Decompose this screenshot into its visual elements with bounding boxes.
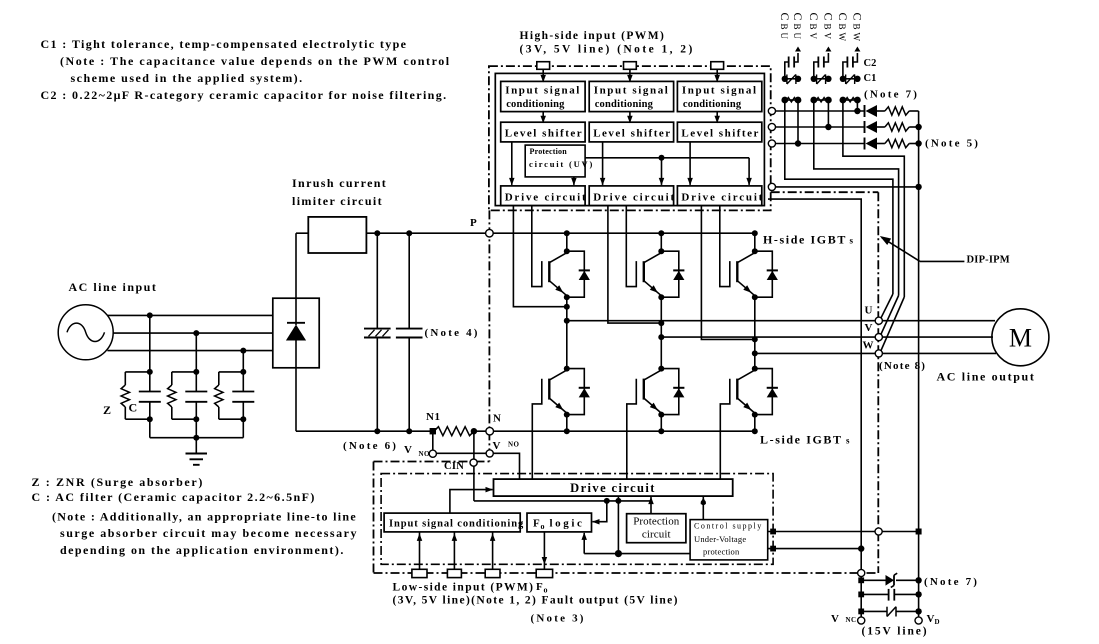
wire ZC2 to bus	[195, 419, 197, 438]
wire ZC3 top bar	[219, 371, 244, 373]
transistor L-side IGBT 2 with freewheel diode	[660, 337, 662, 369]
capacitor C1 pair3	[843, 78, 858, 80]
polarity mark pair1	[795, 47, 801, 52]
node P rail cap2	[406, 230, 412, 236]
node ZC2 top	[193, 369, 199, 375]
wire FS1 slant	[881, 294, 893, 319]
wire CB3 FB column	[856, 100, 858, 111]
wire H1 feedback	[513, 206, 566, 307]
wire low-side input 1	[419, 532, 421, 569]
diode bootstrap D2	[864, 121, 866, 133]
svg-text:C2 : 0.22~2μF R-category ceram: C2 : 0.22~2μF R-category ceramic capacit…	[41, 88, 448, 102]
wire input to level shifter 2	[629, 112, 631, 123]
svg-text:(Note 4): (Note 4)	[425, 327, 480, 339]
wire VNC rail top	[768, 199, 861, 620]
svg-text:depending on the application e: depending on the application environment…	[60, 543, 345, 557]
package outline right	[877, 192, 879, 573]
wire N rail left	[296, 430, 433, 432]
low-side inner box	[381, 474, 773, 565]
node AC line2 tap	[193, 330, 199, 336]
svg-text:V: V	[831, 613, 839, 625]
wire CIN line	[474, 500, 651, 502]
wire CIN sense	[473, 431, 475, 501]
svg-text:CBV: CBV	[821, 13, 835, 43]
wire terminal 2 to input box	[629, 69, 631, 81]
wire drop 2	[195, 333, 197, 372]
wire ground bus	[150, 437, 244, 439]
svg-text:Input signal: Input signal	[505, 85, 581, 97]
node ZC1 top	[147, 369, 153, 375]
wire H3 feedback	[701, 206, 754, 340]
svg-text:CBV: CBV	[807, 13, 821, 43]
svg-text:(Note : The capacitance value: (Note : The capacitance value depends on…	[60, 54, 451, 68]
node N1 right	[471, 428, 477, 434]
wire ZC1 top bar	[125, 371, 150, 373]
wire H3 emitter to phase	[754, 297, 756, 353]
svg-text:Level shifter: Level shifter	[593, 128, 671, 140]
svg-text:protection: protection	[703, 547, 740, 557]
box Level shifter 2	[589, 122, 673, 142]
box Protection circuit (UV)	[525, 145, 585, 177]
svg-text:AC line output: AC line output	[937, 370, 1036, 384]
resistor N1	[434, 427, 474, 436]
capacitor C2 pair1	[785, 62, 789, 79]
package outline low-side left	[373, 462, 375, 574]
svg-text:Input signal conditioning: Input signal conditioning	[389, 519, 524, 530]
node phase W	[752, 350, 758, 356]
svg-text:C: C	[129, 401, 138, 415]
wire protection UV output	[585, 157, 749, 159]
capacitor C2 pair2	[814, 62, 819, 79]
terminal VD high-side	[768, 183, 775, 190]
capacitor C1 (AC filter)	[149, 372, 151, 392]
svg-text:Level shifter: Level shifter	[681, 128, 759, 140]
wire pair2 lower junction	[814, 99, 829, 101]
wire FS3 slant	[881, 297, 905, 351]
node N rail cap2	[406, 428, 412, 434]
bridge rectifier box	[273, 298, 319, 368]
box Drive circuit H2	[589, 186, 673, 206]
svg-text:(Note : Additionally, an appro: (Note : Additionally, an appropriate lin…	[52, 510, 357, 524]
svg-text:C1 : Tight tolerance, temp-com: C1 : Tight tolerance, temp-compensated e…	[41, 37, 408, 51]
node row B left	[858, 592, 864, 598]
wire FS2 slant	[881, 296, 899, 336]
svg-text:M: M	[1009, 324, 1032, 353]
wire CB2 FB column	[827, 100, 829, 127]
node row B right	[915, 591, 921, 597]
svg-text:Inrush current: Inrush current	[292, 176, 387, 190]
wire ZC3 bottom bar	[219, 418, 244, 420]
wire H2 emitter to phase	[660, 297, 662, 337]
svg-text:scheme used in the applied sys: scheme used in the applied system).	[71, 71, 304, 85]
wire ZC1 bottom bar	[125, 418, 150, 420]
svg-text:AC line input: AC line input	[69, 280, 158, 294]
node AC line1 tap	[147, 312, 153, 318]
node P rail col1	[564, 230, 570, 236]
wire drive to fault net	[617, 496, 619, 553]
terminal VD bottom	[915, 617, 922, 624]
svg-text:Input signal: Input signal	[682, 85, 758, 97]
wire control supply VD line	[768, 531, 919, 533]
svg-text:V: V	[493, 440, 501, 452]
zener symbol row C	[886, 607, 888, 617]
wire drop 1	[149, 315, 151, 372]
transistor H-side IGBT 3 with freewheel diode	[754, 233, 756, 251]
svg-text:DIP-IPM: DIP-IPM	[967, 255, 1010, 266]
node phase V	[658, 334, 664, 340]
capacitor C1 pair2	[814, 78, 829, 80]
node AC line3 tap	[240, 348, 246, 354]
box Control supply UV protection	[690, 520, 768, 560]
terminal low-side 4	[536, 569, 552, 577]
wire VNO link	[436, 453, 519, 479]
box Protection circuit low	[627, 514, 686, 543]
wire L2 emitter to N rail	[660, 415, 662, 432]
svg-text:(3V, 5V line) (Note 1, 2): (3V, 5V line) (Note 1, 2)	[520, 44, 695, 56]
wire bootstrap row 2	[776, 126, 865, 128]
wire L3 emitter to N rail	[754, 415, 756, 432]
high-side inner box	[495, 73, 764, 205]
wire input to level shifter 3	[716, 112, 718, 123]
terminal VVFB	[768, 123, 775, 130]
wire UV to drive3	[748, 158, 750, 185]
terminal VNO right	[486, 450, 493, 457]
terminal phase U	[875, 317, 882, 324]
resistor bootstrap R1	[885, 107, 909, 115]
node ZC1 bottom	[147, 416, 153, 422]
node VD line to rail	[915, 184, 921, 190]
node CIN x drive-fault	[615, 498, 621, 504]
wire CB2 FS route	[814, 100, 899, 296]
terminal P	[486, 229, 494, 237]
svg-text:V: V	[927, 613, 935, 625]
svg-text:(Note 3): (Note 3)	[531, 613, 586, 625]
node row C right	[915, 608, 921, 614]
node FB1 row join	[795, 140, 801, 146]
node FB2 row join	[825, 124, 831, 130]
terminal VD package pin	[875, 528, 882, 535]
svg-text:Drive circuit: Drive circuit	[570, 481, 656, 495]
terminal phase V	[875, 334, 882, 341]
svg-text:Z: Z	[103, 403, 111, 417]
node row A right	[915, 577, 921, 583]
wire UV to drive2	[661, 158, 663, 185]
node N rail col3	[752, 428, 758, 434]
box Drive circuit H3	[677, 186, 761, 206]
box Drive circuit low	[494, 479, 733, 496]
wire level shifter1 to drive1	[511, 142, 513, 185]
zener diode DZ	[886, 575, 895, 586]
wire terminal 3 to input box	[716, 69, 718, 81]
transistor L-side IGBT 3 with freewheel diode	[754, 353, 756, 368]
terminal on border bottom	[858, 569, 865, 576]
wire CIN to drive/protection	[650, 497, 652, 514]
svg-text:(15V line): (15V line)	[862, 626, 929, 638]
node protection line col2	[659, 155, 665, 161]
wire low-side input 3	[492, 532, 494, 569]
node P rail col2	[658, 230, 664, 236]
node N rail col1	[564, 428, 570, 434]
capacitor C2 (AC filter)	[195, 372, 197, 392]
varistor Z3	[218, 372, 220, 385]
node fault join	[615, 550, 622, 557]
package outline top-right link	[771, 191, 879, 193]
terminal low-side 3	[485, 569, 500, 577]
svg-text:N1: N1	[426, 411, 440, 423]
node N rail col2	[658, 428, 664, 434]
svg-text:(Note 5): (Note 5)	[925, 138, 980, 150]
svg-text:o: o	[541, 522, 545, 531]
svg-text:CBW: CBW	[836, 13, 850, 45]
node N1 left	[430, 428, 436, 434]
wire level shifter3 to drive3	[689, 142, 691, 185]
wire protection to drive1	[573, 177, 575, 185]
node row2 to VD rail	[915, 124, 921, 130]
svg-text:limiter circuit: limiter circuit	[292, 194, 383, 208]
node ZC3 bottom	[240, 416, 246, 422]
motor M circle	[992, 309, 1049, 366]
svg-text:(3V, 5V line)(Note 1, 2) Fault: (3V, 5V line)(Note 1, 2) Fault output (5…	[393, 595, 679, 607]
wire to Fo logic right	[593, 501, 607, 522]
terminal high-side input 3	[711, 62, 724, 70]
svg-text:U: U	[865, 305, 873, 317]
svg-text:F: F	[533, 518, 540, 530]
svg-text:V: V	[404, 444, 412, 456]
polarity mark pair2	[825, 47, 831, 52]
svg-text:Protection: Protection	[633, 516, 680, 528]
wire fault line	[584, 553, 690, 555]
svg-text:W: W	[863, 340, 874, 352]
svg-text:Level shifter: Level shifter	[505, 128, 583, 140]
terminal VNC	[858, 617, 865, 624]
wire pair1 lower junction	[785, 99, 798, 101]
terminal low-side 1	[412, 569, 427, 577]
node row A left	[858, 577, 864, 583]
node N rail cap1	[374, 428, 380, 434]
wire 15V row A	[861, 579, 885, 581]
varistor Z2	[171, 372, 173, 385]
wire ZC2 bottom bar	[172, 418, 197, 420]
svg-text:C : AC filter (Ceramic capacit: C : AC filter (Ceramic capacitor 2.2~6.5…	[32, 490, 316, 504]
svg-text:NC: NC	[846, 616, 857, 624]
capacitor C3 (AC filter)	[242, 372, 244, 392]
capacitor 15V filter	[861, 593, 888, 595]
wire rectifier to N rail	[295, 368, 297, 431]
wire H2 feedback	[608, 206, 661, 324]
wire H1 emitter to phase	[566, 297, 568, 321]
node FB3 row join	[854, 108, 860, 114]
svg-text:(Note 7): (Note 7)	[924, 576, 979, 588]
svg-text:P: P	[470, 217, 477, 229]
wire P rail	[296, 232, 756, 234]
node H1 feedback join	[564, 304, 570, 310]
node row C left	[858, 609, 864, 615]
svg-text:Input signal: Input signal	[594, 85, 670, 97]
node H2 feedback join	[658, 320, 664, 326]
node ZC3 top	[240, 369, 246, 375]
box Level shifter 3	[677, 122, 761, 142]
wire AC line 1	[107, 314, 272, 316]
svg-text:Under-Voltage: Under-Voltage	[694, 534, 746, 544]
wire terminal 1 to input box	[542, 69, 544, 81]
wire CB1 FB column	[797, 100, 799, 144]
resistor bootstrap R2	[885, 123, 909, 131]
wire L1 emitter to N rail	[566, 415, 568, 432]
node CIN branch	[604, 498, 610, 504]
wire N rail right	[475, 430, 757, 432]
wire fault to Fo logic	[583, 533, 585, 554]
svg-text:CBU: CBU	[778, 13, 792, 43]
wire VD rail	[918, 111, 920, 621]
rectifier diode	[295, 298, 297, 325]
svg-text:Protection: Protection	[530, 147, 568, 156]
wire CB1 FS route	[785, 100, 893, 294]
wire Fo output	[543, 532, 545, 569]
wire ZC1 to bus	[149, 419, 151, 438]
wire input to level shifter 1	[542, 112, 544, 123]
wire ZC2 top bar	[172, 371, 197, 373]
node phase U	[564, 318, 570, 324]
node row3 to VD rail	[915, 140, 921, 146]
polarity mark pair3	[854, 47, 860, 52]
svg-text:High-side input (PWM): High-side input (PWM)	[520, 30, 666, 42]
svg-text:Control supply: Control supply	[694, 522, 763, 531]
node ZC2 bottom	[193, 416, 199, 422]
svg-text:Drive circuit: Drive circuit	[681, 191, 764, 203]
node P rail cap1	[374, 230, 380, 236]
wire level shifter2 to drive2	[602, 142, 604, 185]
wire input-cond to drive	[450, 490, 493, 513]
svg-text:(Note 7): (Note 7)	[864, 89, 919, 101]
svg-text:CIN: CIN	[444, 461, 464, 472]
terminal high-side input 1	[537, 62, 550, 70]
wire AC line 2	[113, 332, 273, 334]
svg-text:Drive circuit: Drive circuit	[593, 191, 676, 203]
box Drive circuit H1	[501, 186, 585, 206]
wire ZC3 to bus	[242, 419, 244, 438]
svg-text:Z : ZNR (Surge absorber): Z : ZNR (Surge absorber)	[32, 475, 204, 489]
svg-text:circuit (UV): circuit (UV)	[529, 159, 594, 169]
wire phase W	[755, 352, 996, 354]
terminal VNO left	[429, 450, 436, 457]
box Input signal conditioning 1	[501, 81, 585, 111]
svg-text:s: s	[850, 236, 854, 246]
wire rectifier to P rail	[295, 233, 297, 298]
svg-text:conditioning: conditioning	[506, 99, 565, 110]
wire drop 3	[242, 351, 244, 372]
node P rail col3	[752, 230, 758, 236]
package outline bottom	[374, 572, 879, 574]
box Fo logic	[527, 513, 592, 532]
wire pair3 lower junction	[843, 99, 858, 101]
wire phase V	[661, 336, 993, 338]
ground	[195, 438, 197, 454]
varistor Z1	[124, 372, 126, 385]
inrush limiter box	[308, 217, 366, 253]
diode bootstrap D3	[864, 138, 866, 150]
svg-text:Low-side input (PWM): Low-side input (PWM)	[393, 582, 535, 594]
wire bootstrap row 3	[776, 143, 865, 145]
resistor bootstrap R3	[885, 139, 909, 147]
svg-text:(Note 8): (Note 8)	[879, 360, 926, 372]
capacitor C (Note 4)	[408, 233, 410, 328]
capacitor C2 pair3	[843, 62, 848, 79]
svg-text:N: N	[493, 413, 501, 425]
box Input signal conditioning 2	[589, 81, 673, 111]
package outline high-side box	[489, 66, 771, 210]
terminal CIN	[470, 459, 477, 466]
terminal high-side input 2	[624, 62, 637, 70]
svg-text:circuit: circuit	[642, 529, 671, 541]
svg-text:conditioning: conditioning	[595, 99, 654, 110]
transistor H-side IGBT 1 with freewheel diode	[566, 233, 568, 251]
DIP-IPM arrow	[920, 260, 964, 262]
svg-text:NO: NO	[419, 450, 430, 458]
svg-text:D: D	[935, 618, 940, 626]
node ground bus	[193, 435, 199, 441]
svg-text:L-side IGBT: L-side IGBT	[760, 433, 843, 447]
terminal N	[486, 427, 494, 435]
svg-text:conditioning: conditioning	[683, 99, 742, 110]
terminal VUFB	[768, 107, 775, 114]
wire N1 to VNO-left	[432, 431, 434, 450]
wire AC line 3	[107, 350, 272, 352]
svg-text:CBU: CBU	[791, 13, 805, 43]
wire 15V row C	[861, 610, 887, 612]
svg-text:CBW: CBW	[850, 13, 864, 45]
terminal VWFB	[768, 140, 775, 147]
AC source sine wave	[67, 323, 105, 341]
svg-text:H-side IGBT: H-side IGBT	[763, 233, 847, 247]
svg-text:o: o	[544, 586, 548, 595]
node H3 feedback join	[752, 336, 758, 342]
capacitor electrolytic (hatched)	[376, 233, 378, 328]
transistor H-side IGBT 2 with freewheel diode	[660, 233, 662, 251]
AC source circle	[58, 305, 113, 360]
svg-text:C1: C1	[864, 73, 877, 84]
wire VD line	[776, 186, 919, 188]
svg-text:logic: logic	[550, 518, 585, 530]
svg-text:C2: C2	[864, 58, 877, 69]
wire phase U	[567, 320, 995, 322]
svg-text:surge absorber circuit may bec: surge absorber circuit may become necess…	[60, 526, 358, 540]
diode bootstrap D1	[864, 105, 866, 117]
box Level shifter 1	[501, 122, 585, 142]
svg-text:(Note 6): (Note 6)	[343, 440, 398, 452]
package outline left edge	[488, 210, 490, 461]
wire bootstrap row 1	[776, 110, 865, 112]
wire control supply to drive	[702, 497, 704, 520]
box Input signal conditioning 3	[677, 81, 761, 111]
terminal phase W	[875, 350, 882, 357]
svg-text:V: V	[865, 322, 873, 334]
svg-text:s: s	[846, 436, 850, 446]
capacitor C1 pair1	[785, 78, 798, 80]
wire low-side input 2	[453, 532, 455, 569]
svg-text:F: F	[536, 581, 543, 593]
terminal low-side 2	[447, 569, 461, 577]
wire CB3 FS route	[843, 100, 904, 297]
package outline low-side top	[374, 461, 490, 463]
wire control supply ground line	[768, 548, 862, 550]
box Input signal conditioning low	[384, 513, 520, 532]
svg-text:Drive circuit: Drive circuit	[505, 191, 588, 203]
transistor L-side IGBT 1 with freewheel diode	[566, 321, 568, 369]
svg-text:NO: NO	[508, 441, 519, 449]
